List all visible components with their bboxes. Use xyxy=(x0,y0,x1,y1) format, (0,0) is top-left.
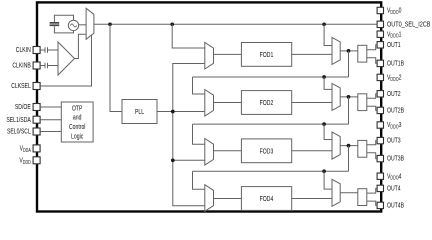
wire cascade drop from OUT3 mux xyxy=(348,146,350,172)
divider FOD2 xyxy=(241,91,291,115)
wire FOD2 mux out to FOD2 xyxy=(214,102,242,104)
svg-text:CLKIN: CLKIN xyxy=(16,46,31,54)
pin OUT4B xyxy=(377,202,383,208)
svg-text:and: and xyxy=(73,114,82,122)
wire buffer out to reference mux xyxy=(75,34,87,58)
node PLL to FOD3 junction xyxy=(171,158,175,162)
pin CLKIN xyxy=(33,47,40,54)
mux reference clock select xyxy=(86,8,94,39)
wire PLL dist down to FOD4 mux xyxy=(173,112,205,206)
pin OUT0_SEL_I2CB xyxy=(377,21,383,27)
OTP and Control Logic block xyxy=(61,102,93,142)
wire driver to OUT3B pin xyxy=(367,153,377,159)
wire CLKINB to cap xyxy=(40,65,45,67)
svg-text:FOD1: FOD1 xyxy=(260,51,274,59)
wire reference to FOD1 mux xyxy=(172,24,205,48)
wire SD/OE to control xyxy=(40,106,61,108)
svg-text:Control: Control xyxy=(69,123,85,131)
divider FOD4 xyxy=(241,187,291,211)
svg-text:CLKINB: CLKINB xyxy=(12,62,30,70)
svg-text:OUT2B: OUT2B xyxy=(387,107,404,115)
wire reference clock line to OUT0_SEL_I2CB xyxy=(94,23,377,25)
node cascade junction row 3 xyxy=(322,122,326,126)
wire FOD1 mux out to FOD1 xyxy=(214,53,242,55)
node PLL output junction xyxy=(171,110,175,114)
wire OUT3 mux out to driver xyxy=(340,145,358,147)
chip boundary xyxy=(37,2,381,211)
pin VDDO2 xyxy=(377,74,383,80)
wire driver to OUT2B pin xyxy=(367,106,377,110)
divider FOD1 xyxy=(241,43,291,67)
wire driver to OUT1B pin xyxy=(367,58,377,64)
wire PLL output xyxy=(157,111,173,113)
svg-text:CLKSEL: CLKSEL xyxy=(11,82,31,90)
input buffer amp xyxy=(58,42,75,75)
node ref to FOD1 mux junction xyxy=(170,22,174,26)
mux FOD2 input select xyxy=(205,90,214,117)
wire OUT4 mux out to driver xyxy=(340,192,358,194)
pin OUT3B xyxy=(377,155,383,161)
mux OUT4 select xyxy=(332,179,340,206)
wire cascade drop from OUT1 mux xyxy=(348,51,350,77)
pin SEL0/SCL xyxy=(33,128,40,135)
pin OUT1B xyxy=(377,60,383,66)
wire crystal top loop xyxy=(54,15,73,22)
node OUT3 cascade junction xyxy=(347,144,351,148)
wire reference to OUT1 mux input xyxy=(324,24,332,45)
wire FOD3 out to OUT3 mux xyxy=(292,150,332,152)
mux FOD1 input select xyxy=(205,42,214,69)
pin SEL1/SDA xyxy=(33,116,40,123)
PLL U2 xyxy=(122,100,157,124)
pin SD/OE xyxy=(33,104,40,111)
wire reference into PLL xyxy=(110,24,122,111)
wire crystal bottom loop xyxy=(54,26,73,33)
pin OUT4 xyxy=(377,185,383,191)
wire FOD4 mux out to FOD4 xyxy=(214,198,242,200)
pin OUT2 xyxy=(377,91,383,97)
pin VDDD xyxy=(33,157,40,164)
svg-text:PLL: PLL xyxy=(135,108,144,116)
pin VDDO1 xyxy=(377,31,383,37)
svg-text:OUT3B: OUT3B xyxy=(387,155,404,163)
svg-text:OUT4: OUT4 xyxy=(387,185,401,193)
node ref to PLL junction xyxy=(108,22,112,26)
wire cascade to FOD4 mux input xyxy=(193,171,205,189)
driver OUT1 xyxy=(358,45,367,62)
svg-text:FOD4: FOD4 xyxy=(260,195,274,203)
svg-text:FOD3: FOD3 xyxy=(260,148,274,156)
svg-text:OUT2: OUT2 xyxy=(387,90,401,98)
node ref to OUT1 mux junction xyxy=(322,22,326,26)
driver OUT3 xyxy=(358,140,367,157)
wire CLKSEL select to reference mux xyxy=(40,35,91,86)
wire cascade to OUT4 mux input xyxy=(324,171,332,189)
node OUT1 cascade junction xyxy=(347,49,351,53)
pin OUT1 xyxy=(377,42,383,48)
wire cap to buffer in- xyxy=(48,65,58,67)
wire cascade rail row 2 xyxy=(193,76,349,78)
wire oscillator to reference mux xyxy=(79,24,87,26)
svg-text:OUT1B: OUT1B xyxy=(387,60,404,68)
mux OUT1 select xyxy=(332,37,340,64)
svg-text:SEL1/SDA: SEL1/SDA xyxy=(6,116,31,124)
wire driver to OUT3 pin xyxy=(367,141,377,145)
wire PLL to FOD2 mux xyxy=(173,111,205,113)
mux FOD3 input select xyxy=(205,139,214,166)
wire driver to OUT1 pin xyxy=(367,45,377,50)
crystal Y1 xyxy=(50,22,60,24)
node cascade junction row 4 xyxy=(322,169,326,173)
wire PLL dist up to FOD1 mux xyxy=(173,64,205,112)
driver OUT4 xyxy=(358,189,367,206)
svg-text:OUT4B: OUT4B xyxy=(387,202,404,210)
oscillator OSC xyxy=(68,20,78,30)
wire cascade to FOD3 mux input xyxy=(193,124,205,144)
wire driver to OUT2 pin xyxy=(367,94,377,98)
svg-text:SD/OE: SD/OE xyxy=(15,103,31,111)
svg-text:OUT1: OUT1 xyxy=(387,41,401,49)
wire cascade drop from OUT2 mux xyxy=(348,97,350,124)
divider FOD3 xyxy=(241,139,291,163)
svg-text:OTP: OTP xyxy=(72,105,83,113)
svg-text:Logic: Logic xyxy=(71,133,83,141)
driver OUT2 xyxy=(358,94,367,111)
node cascade junction row 2 xyxy=(322,75,326,79)
mux OUT2 select xyxy=(332,83,340,110)
wire FOD2 out to OUT2 mux xyxy=(292,102,332,104)
wire SEL1/SDA to control xyxy=(40,119,61,121)
wire FOD3 mux out to FOD3 xyxy=(214,150,242,152)
pin VDDO4 xyxy=(377,173,383,179)
wire SEL0/SCL to control xyxy=(40,131,61,133)
pin OUT2B xyxy=(377,107,383,113)
wire OUT2 mux out to driver xyxy=(340,96,358,98)
wire cap to buffer in+ xyxy=(48,49,58,51)
svg-text:FOD2: FOD2 xyxy=(260,99,274,107)
wire driver to OUT4 pin xyxy=(367,188,377,193)
node OUT2 cascade junction xyxy=(347,95,351,99)
pin OUT3 xyxy=(377,137,383,143)
wire driver to OUT4B pin xyxy=(367,201,377,205)
pin VDDA xyxy=(33,145,40,152)
capacitor CLKINB coupling xyxy=(45,63,48,69)
wire CLKIN to cap xyxy=(40,49,45,51)
svg-text:OUT3: OUT3 xyxy=(387,137,401,145)
pin CLKSEL xyxy=(33,83,40,90)
wire PLL to FOD3 mux xyxy=(173,159,205,161)
wire FOD4 out to OUT4 mux xyxy=(292,198,332,200)
wire cascade rail row 3 xyxy=(193,123,349,125)
capacitor CLKIN coupling xyxy=(45,47,48,53)
mux FOD4 input select xyxy=(205,185,214,212)
pin CLKINB xyxy=(33,62,40,69)
mux OUT3 select xyxy=(332,132,340,159)
wire cascade to FOD2 mux input xyxy=(193,77,205,94)
wire cascade to OUT2 mux input xyxy=(324,77,332,89)
svg-text:OUT0_SEL_I2CB: OUT0_SEL_I2CB xyxy=(387,21,430,29)
wire OUT1 mux out to driver xyxy=(340,50,358,52)
svg-text:SEL0/SCL: SEL0/SCL xyxy=(7,128,31,136)
pin VDDO0 xyxy=(377,7,383,13)
wire cascade to OUT3 mux input xyxy=(324,124,332,139)
wire FOD1 out to OUT1 mux xyxy=(292,53,332,55)
wire cascade rail row 4 xyxy=(193,170,349,172)
pin VDDO3 xyxy=(377,122,383,128)
